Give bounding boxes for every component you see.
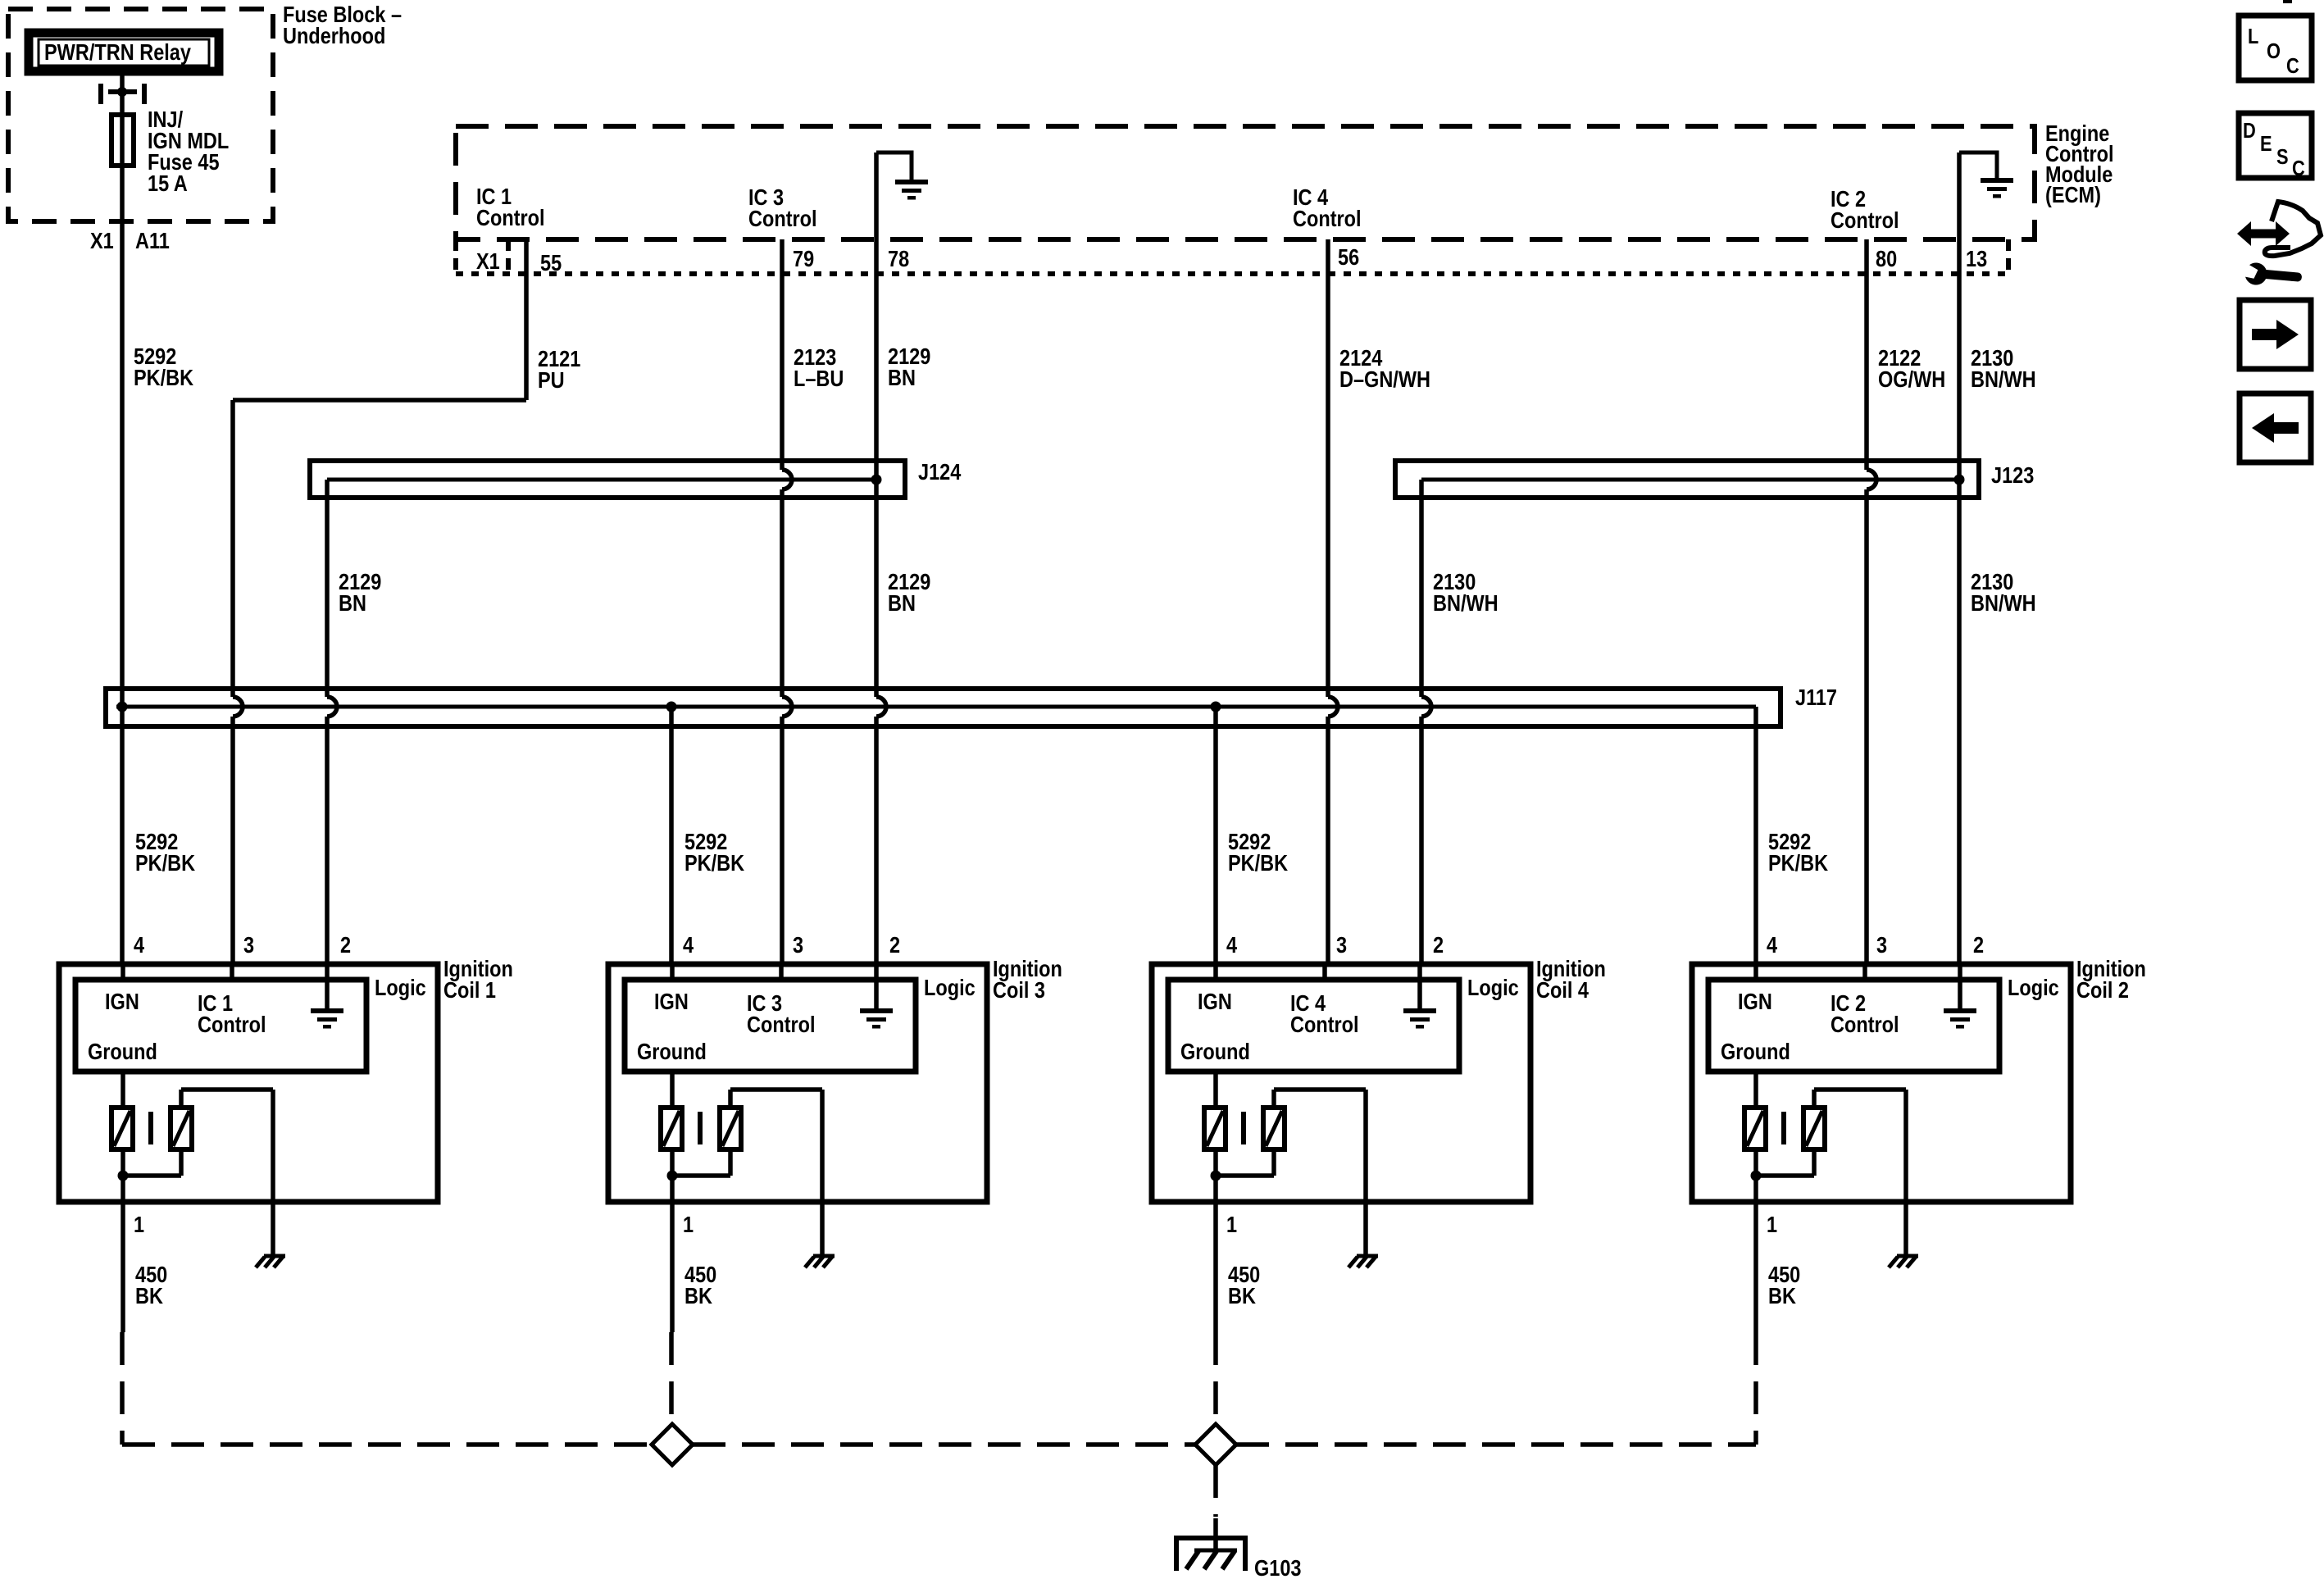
svg-text:IGN: IGN xyxy=(1738,990,1772,1014)
svg-text:3: 3 xyxy=(793,933,803,958)
svg-text:PK/BK: PK/BK xyxy=(1228,851,1288,876)
svg-text:Coil 2: Coil 2 xyxy=(2076,978,2129,1003)
svg-text:Control: Control xyxy=(476,206,545,230)
svg-text:Logic: Logic xyxy=(1467,976,1519,1000)
svg-text:Control: Control xyxy=(198,1012,266,1037)
svg-text:PK/BK: PK/BK xyxy=(135,851,195,876)
svg-text:2: 2 xyxy=(889,933,900,958)
svg-text:IGN: IGN xyxy=(654,990,689,1014)
svg-text:X1: X1 xyxy=(476,249,500,274)
svg-text:55: 55 xyxy=(540,251,562,275)
svg-text:BK: BK xyxy=(684,1284,712,1308)
svg-text:Control: Control xyxy=(1831,208,1899,233)
svg-text:BN: BN xyxy=(888,366,916,390)
svg-text:G103: G103 xyxy=(1254,1556,1302,1579)
svg-text:BK: BK xyxy=(1768,1284,1796,1308)
svg-text:Logic: Logic xyxy=(2008,976,2059,1000)
svg-text:PU: PU xyxy=(538,368,565,393)
svg-text:Ground: Ground xyxy=(1721,1040,1790,1064)
svg-text:79: 79 xyxy=(793,247,814,271)
svg-text:A11: A11 xyxy=(135,229,170,253)
svg-text:BK: BK xyxy=(135,1284,163,1308)
svg-text:80: 80 xyxy=(1876,247,1897,271)
svg-text:78: 78 xyxy=(888,247,909,271)
svg-text:BN/WH: BN/WH xyxy=(1971,591,2036,616)
svg-text:4: 4 xyxy=(1226,933,1238,958)
svg-text:PK/BK: PK/BK xyxy=(1768,851,1828,876)
svg-text:Ground: Ground xyxy=(88,1040,157,1064)
svg-text:1: 1 xyxy=(134,1213,144,1237)
svg-text:D–GN/WH: D–GN/WH xyxy=(1339,367,1430,392)
svg-text:Ground: Ground xyxy=(1180,1040,1250,1064)
svg-text:OG/WH: OG/WH xyxy=(1878,367,1945,392)
svg-text:Coil 4: Coil 4 xyxy=(1536,978,1590,1003)
svg-text:4: 4 xyxy=(683,933,694,958)
svg-text:J124: J124 xyxy=(918,460,962,485)
svg-text:C: C xyxy=(2292,157,2305,180)
svg-text:1: 1 xyxy=(683,1213,694,1237)
svg-text:BN/WH: BN/WH xyxy=(1971,367,2036,392)
svg-text:IGN: IGN xyxy=(1198,990,1232,1014)
svg-text:2: 2 xyxy=(1433,933,1444,958)
svg-text:O: O xyxy=(2267,39,2281,63)
svg-text:13: 13 xyxy=(1966,247,1987,271)
svg-text:PWR/TRN Relay: PWR/TRN Relay xyxy=(44,40,192,65)
svg-text:E: E xyxy=(2260,132,2272,156)
svg-text:PK/BK: PK/BK xyxy=(134,366,193,390)
svg-text:4: 4 xyxy=(134,933,145,958)
svg-text:4: 4 xyxy=(1767,933,1778,958)
svg-text:PK/BK: PK/BK xyxy=(684,851,744,876)
svg-text:2: 2 xyxy=(1973,933,1984,958)
svg-text:56: 56 xyxy=(1338,245,1359,270)
svg-text:3: 3 xyxy=(1876,933,1887,958)
svg-text:Control: Control xyxy=(1831,1012,1899,1037)
svg-text:1: 1 xyxy=(1767,1213,1777,1237)
svg-text:BN/WH: BN/WH xyxy=(1433,591,1499,616)
svg-text:Control: Control xyxy=(1293,207,1362,231)
svg-text:(ECM): (ECM) xyxy=(2045,183,2101,207)
svg-text:J123: J123 xyxy=(1991,463,2034,488)
svg-text:BN: BN xyxy=(888,591,916,616)
svg-text:L–BU: L–BU xyxy=(794,366,844,391)
svg-text:Logic: Logic xyxy=(924,976,976,1000)
svg-text:1: 1 xyxy=(1226,1213,1237,1237)
svg-text:15 A: 15 A xyxy=(148,171,188,196)
svg-text:J117: J117 xyxy=(1795,685,1837,710)
svg-text:L: L xyxy=(2248,25,2258,48)
svg-text:BN: BN xyxy=(339,591,366,616)
svg-text:Ground: Ground xyxy=(637,1040,707,1064)
svg-text:2: 2 xyxy=(340,933,351,958)
svg-text:D: D xyxy=(2243,119,2256,143)
svg-text:Coil 3: Coil 3 xyxy=(993,978,1045,1003)
svg-text:Underhood: Underhood xyxy=(283,24,385,48)
svg-text:X1: X1 xyxy=(90,229,114,253)
svg-text:S: S xyxy=(2276,145,2289,169)
svg-text:Coil 1: Coil 1 xyxy=(443,978,496,1003)
svg-text:Control: Control xyxy=(747,1012,816,1037)
svg-text:Control: Control xyxy=(1290,1012,1359,1037)
svg-text:BK: BK xyxy=(1228,1284,1256,1308)
svg-text:Logic: Logic xyxy=(375,976,426,1000)
svg-text:C: C xyxy=(2286,54,2299,78)
svg-text:3: 3 xyxy=(243,933,254,958)
svg-text:IGN: IGN xyxy=(105,990,139,1014)
svg-text:Control: Control xyxy=(748,207,817,231)
svg-text:3: 3 xyxy=(1336,933,1347,958)
